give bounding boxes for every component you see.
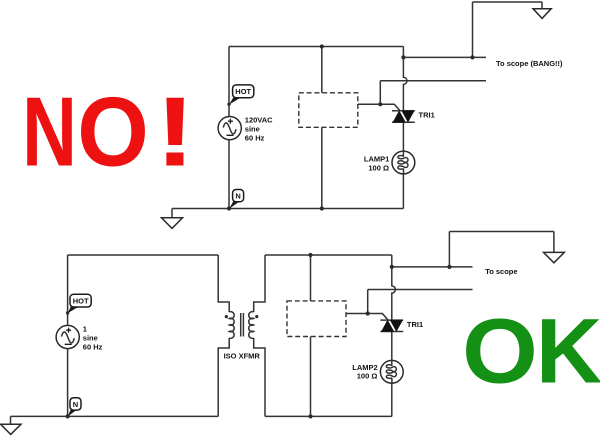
svg-text:sine: sine bbox=[83, 334, 98, 343]
svg-text:HOT: HOT bbox=[235, 87, 251, 96]
svg-text:K: K bbox=[536, 300, 600, 402]
svg-text:LAMP1: LAMP1 bbox=[364, 154, 389, 163]
triac TRI1 (top) bbox=[392, 111, 415, 122]
wire ground link vertical (bottom) bbox=[448, 232, 450, 267]
node junction bottom mid (bottom circuit) bbox=[308, 414, 312, 418]
wire scope line B (bottom gate probe) bbox=[368, 289, 473, 291]
node junction scope A right bbox=[470, 55, 474, 59]
value label LAMP1 100ohm bbox=[364, 154, 389, 172]
node junction scope A right (bottom) bbox=[447, 265, 451, 269]
transformer T1 primary lead top bbox=[218, 255, 229, 312]
transformer phase dot primary bbox=[225, 315, 228, 318]
ac source V1 bbox=[218, 117, 241, 140]
svg-text:N: N bbox=[22, 76, 77, 187]
wire bottom horizontal secondary bbox=[265, 415, 392, 417]
ground top right bbox=[533, 2, 551, 18]
wire gate link vertical bbox=[379, 81, 381, 105]
wire bottom horizontal left loop bbox=[11, 415, 219, 417]
wire lamp to bottom corner bbox=[402, 174, 404, 209]
wire ground link horizontal (bottom) bbox=[449, 231, 554, 233]
svg-text:ISO XFMR: ISO XFMR bbox=[224, 352, 261, 361]
value label 1 sine 60 Hz bbox=[83, 325, 103, 352]
wire ground link horizontal bbox=[473, 1, 543, 3]
node junction scope A left (bottom) bbox=[390, 265, 394, 269]
node junction scope A left bbox=[401, 55, 405, 59]
svg-text:sine: sine bbox=[245, 125, 260, 134]
svg-text:O: O bbox=[77, 77, 149, 187]
transformer T1 secondary lead top bbox=[254, 255, 265, 312]
transformer T1 secondary lead bottom bbox=[254, 338, 265, 416]
wire mid vertical upper (to dashed box) bbox=[321, 47, 323, 93]
wire gate horizontal + diagonal bbox=[358, 104, 400, 111]
wire left upper (source top) bbox=[228, 47, 230, 117]
svg-text:1: 1 bbox=[83, 325, 87, 334]
node junction top mid (bottom circuit) bbox=[308, 253, 312, 257]
svg-text:LAMP2: LAMP2 bbox=[352, 363, 377, 372]
dashed box (top circuit) bbox=[299, 93, 358, 128]
node junction top mid bbox=[320, 44, 324, 48]
wire top horizontal left loop bbox=[68, 254, 219, 256]
node junction bottom left (bottom circuit) bbox=[66, 414, 70, 418]
svg-text:O: O bbox=[462, 300, 538, 403]
transformer T1 primary lead bottom bbox=[218, 338, 229, 416]
svg-text:100 Ω: 100 Ω bbox=[368, 164, 389, 173]
wire gate link vertical (bottom) bbox=[367, 290, 369, 314]
lamp LAMP1 bbox=[392, 151, 415, 174]
triac TRI1 (bottom) bbox=[380, 320, 403, 331]
ac source V2 bbox=[56, 325, 79, 348]
wire triac to lamp (bottom) bbox=[391, 332, 393, 361]
wire right vertical with hop bbox=[392, 255, 396, 320]
lamp LAMP2 bbox=[380, 360, 403, 383]
ground bottom left bbox=[1, 416, 22, 434]
svg-text:HOT: HOT bbox=[73, 296, 89, 305]
transformer phase dot secondary bbox=[255, 315, 258, 318]
wire scope line A bbox=[403, 56, 486, 58]
dashed box (bottom circuit) bbox=[287, 301, 346, 337]
svg-text:To scope (BANG!!): To scope (BANG!!) bbox=[496, 59, 563, 68]
wire bottom horizontal (N net) bbox=[172, 208, 403, 210]
net flag HOT (bottom circuit) bbox=[66, 294, 91, 314]
node junction gate bbox=[378, 102, 382, 106]
node junction bottom mid bbox=[320, 206, 324, 210]
wire top horizontal (HOT net) bbox=[229, 46, 403, 48]
wire mid vertical upper (to dashed box) bbox=[310, 255, 312, 301]
svg-text:60 Hz: 60 Hz bbox=[245, 134, 265, 143]
wire top horizontal secondary bbox=[265, 254, 392, 256]
svg-text:To scope: To scope bbox=[485, 267, 517, 276]
wire gate horizontal + diagonal (bottom) bbox=[346, 314, 388, 321]
net flag N (bottom circuit) bbox=[68, 398, 81, 417]
value label LAMP2 100ohm bbox=[352, 363, 377, 381]
ground bottom left of top circuit bbox=[162, 209, 183, 229]
transformer T1 core bbox=[241, 313, 244, 337]
wire mid vertical lower (dashed box to bottom) bbox=[321, 127, 323, 208]
wire left lower (source bottom to N) bbox=[228, 140, 230, 209]
wire scope line A (bottom) bbox=[392, 266, 473, 268]
wire right vertical with hop over scope line bbox=[403, 47, 407, 111]
svg-text:N: N bbox=[73, 400, 78, 409]
wire ground link vertical bbox=[472, 2, 474, 57]
transformer T1 secondary winding bbox=[249, 312, 254, 339]
wire mid vertical lower bbox=[310, 337, 312, 417]
value label 120VAC sine 60 Hz bbox=[245, 116, 273, 143]
net flag HOT (top circuit) bbox=[227, 85, 254, 106]
wire left lower (source bottom) bbox=[67, 349, 69, 417]
transformer T1 primary winding bbox=[229, 312, 234, 339]
net flag N (top circuit) bbox=[229, 190, 243, 209]
wire lamp to bottom corner bbox=[391, 383, 393, 416]
wire scope line B (gate probe) bbox=[380, 80, 486, 82]
wire triac to lamp bbox=[402, 122, 404, 151]
svg-text:120VAC: 120VAC bbox=[245, 116, 273, 125]
svg-text:N: N bbox=[235, 192, 240, 201]
svg-text:!: ! bbox=[155, 77, 195, 187]
node junction gate (bottom) bbox=[366, 311, 370, 315]
svg-text:TRI1: TRI1 bbox=[419, 111, 435, 120]
svg-text:60 Hz: 60 Hz bbox=[83, 343, 103, 352]
wire left upper (source top) bbox=[67, 255, 69, 326]
ground top right (bottom circuit) bbox=[544, 232, 565, 263]
svg-text:TRI1: TRI1 bbox=[407, 320, 423, 329]
node junction bottom left bbox=[227, 206, 231, 210]
svg-text:100 Ω: 100 Ω bbox=[357, 372, 378, 381]
